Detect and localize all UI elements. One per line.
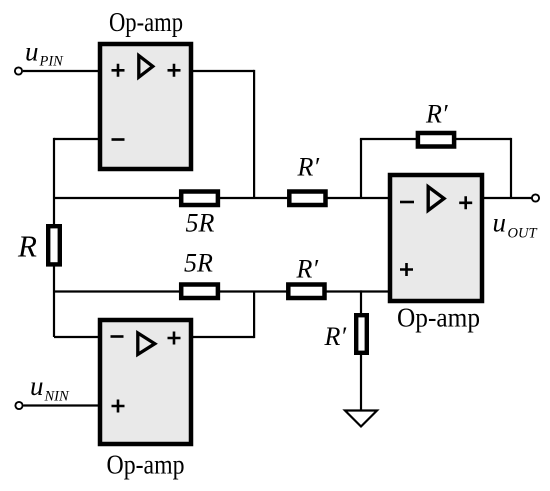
ground — [345, 411, 377, 427]
wire feedback right vertical — [510, 138, 512, 198]
svg-text:R′: R′ — [324, 322, 347, 351]
wire rail 1 (upper) — [54, 197, 390, 199]
svg-text:Op-amp: Op-amp — [107, 450, 185, 480]
wire u_NIN lead — [24, 404, 100, 406]
terminal u_OUT — [532, 194, 539, 201]
wire u_PIN lead — [23, 70, 99, 72]
wire U1 inverting input to left bus — [54, 138, 99, 140]
op-amp U1 — [100, 44, 191, 169]
svg-text:NIN: NIN — [44, 389, 71, 405]
wire ground branch vertical — [360, 290, 362, 313]
resistor R4 (R' lower) — [288, 285, 324, 299]
resistor R5 (R' feedback) — [418, 133, 454, 147]
wire U2 inverting input — [54, 336, 99, 338]
wire feedback top horizontal — [360, 138, 511, 140]
wire U2 output to node B — [191, 336, 254, 338]
svg-text:Op-amp: Op-amp — [397, 303, 480, 333]
wire node B vertical up to rail 2 — [253, 291, 255, 338]
svg-text:R′: R′ — [296, 255, 319, 284]
resistor R2 (R' upper) — [289, 192, 325, 206]
resistor R3 (5R lower) — [181, 285, 218, 299]
svg-text:R: R — [17, 229, 37, 264]
svg-text:u: u — [493, 208, 507, 238]
svg-text:OUT: OUT — [508, 226, 538, 242]
wire U1 output to node A — [191, 70, 254, 72]
wire U3 output — [482, 197, 532, 199]
resistor R6 (R' to ground) — [356, 315, 367, 353]
svg-text:u: u — [25, 37, 39, 67]
label u_OUT — [493, 208, 538, 242]
wire rail 2 (lower) — [54, 290, 390, 292]
svg-text:Op-amp: Op-amp — [109, 7, 183, 37]
wire feedback left vertical from rail 1 — [360, 139, 362, 199]
svg-text:R′: R′ — [425, 100, 448, 129]
terminal u_PIN — [15, 67, 22, 74]
wire resistor R'4 to ground — [360, 355, 362, 410]
svg-text:u: u — [30, 371, 44, 401]
svg-text:5R: 5R — [184, 249, 213, 278]
label u_PIN — [25, 37, 64, 70]
label u_NIN — [30, 371, 70, 405]
wire left bus vertical — [53, 138, 55, 337]
op-amp U2 — [100, 320, 191, 444]
svg-text:PIN: PIN — [39, 54, 65, 70]
resistor R (left vertical) — [48, 226, 60, 264]
wire node A vertical down to rail 1 — [253, 70, 255, 198]
op-amp U3 — [390, 175, 482, 301]
resistor R1 (5R upper) — [181, 192, 218, 206]
terminal u_NIN — [15, 402, 22, 409]
svg-text:5R: 5R — [186, 209, 215, 238]
svg-text:R′: R′ — [297, 153, 320, 182]
